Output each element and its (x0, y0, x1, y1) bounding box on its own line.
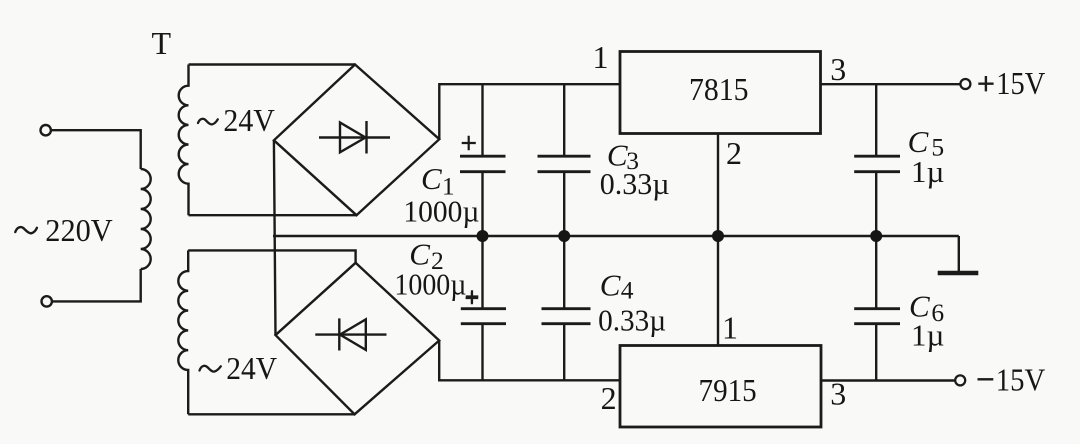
wire: ground drop (958, 236, 960, 272)
junction dot at C1/C2 column (477, 230, 489, 242)
plus sign after C2 value (466, 292, 479, 304)
inductor: transformer primary winding (141, 169, 151, 269)
tilde of ~24V (top) (198, 119, 218, 125)
capacitor C5 (875, 84, 877, 236)
diode symbol inside bottom bridge (315, 333, 386, 335)
regulator U1 7815 box (620, 52, 821, 134)
junction dot at C5/C6 column (870, 230, 882, 242)
svg-text:15V: 15V (996, 362, 1045, 398)
ground symbol (938, 271, 979, 276)
svg-text:24V: 24V (226, 350, 277, 386)
node: -15V terminal (955, 375, 965, 385)
svg-text:1: 1 (593, 39, 609, 75)
wire: bottom secondary bottom lead (188, 413, 354, 415)
svg-text:1: 1 (722, 310, 738, 346)
label -15V (978, 378, 994, 380)
bridge rectifier D1 (top diamond) (274, 65, 439, 216)
svg-text:3: 3 (830, 375, 846, 411)
wire: primary top lead (51, 130, 141, 169)
wire: center ground rail (273, 235, 959, 237)
capacitor C2 (481, 236, 483, 380)
capacitor C3 (563, 84, 565, 236)
svg-text:2: 2 (601, 380, 617, 416)
bridge rectifier D2 (bottom diamond) (276, 263, 440, 415)
svg-text:C: C (421, 161, 442, 196)
wire: bottom bridge - output down to rail (439, 341, 620, 381)
node: AC input terminal bottom (42, 296, 52, 306)
svg-text:7815: 7815 (689, 71, 749, 107)
inductor: transformer secondary winding (top) (179, 65, 189, 216)
svg-text:1000µ: 1000µ (403, 194, 479, 229)
wire: primary bottom lead (52, 269, 141, 301)
svg-text:1µ: 1µ (911, 318, 944, 353)
svg-text:0.33µ: 0.33µ (600, 166, 670, 201)
junction dot at regulator GND column (712, 230, 724, 242)
capacitor C4 (563, 236, 565, 380)
svg-text:C: C (600, 268, 621, 303)
tilde of ~24V (bottom) (200, 366, 221, 372)
wire: 7915 pin3 output rail (821, 379, 956, 381)
wire: bottom secondary top lead (188, 250, 355, 262)
wire: 7815 pin2 / 7915 pin1 vertical (717, 134, 719, 346)
svg-text:0.33µ: 0.33µ (598, 303, 666, 338)
svg-text:24V: 24V (223, 102, 274, 138)
node: AC input terminal top (41, 125, 51, 135)
capacitor C6 (875, 236, 877, 381)
regulator U2 7915 box (620, 346, 821, 428)
svg-text:T: T (152, 25, 172, 61)
wire: top secondary bottom lead (189, 214, 357, 216)
capacitor C1 (481, 84, 483, 236)
node: +15V terminal (960, 79, 970, 89)
svg-text:15V: 15V (996, 65, 1045, 101)
wire: 7815 pin3 output rail (821, 83, 961, 85)
wire: top secondary top lead (189, 63, 356, 65)
svg-text:2: 2 (726, 135, 742, 171)
svg-text:3: 3 (830, 51, 846, 87)
junction dot at C3/C4 column (558, 230, 570, 242)
wire: top bridge + output up to rail (439, 84, 620, 139)
wire: bridge left vertices vertical link (274, 140, 276, 335)
svg-text:1µ: 1µ (911, 154, 944, 189)
tilde of ~220V (15, 227, 37, 233)
label +15V (978, 76, 993, 91)
svg-text:7915: 7915 (699, 372, 757, 408)
svg-text:4: 4 (621, 275, 634, 304)
svg-text:1000µ: 1000µ (394, 266, 466, 301)
inductor: transformer secondary winding (bottom) (178, 250, 188, 414)
diode symbol inside top bridge (319, 136, 390, 138)
svg-text:220V: 220V (45, 212, 112, 248)
